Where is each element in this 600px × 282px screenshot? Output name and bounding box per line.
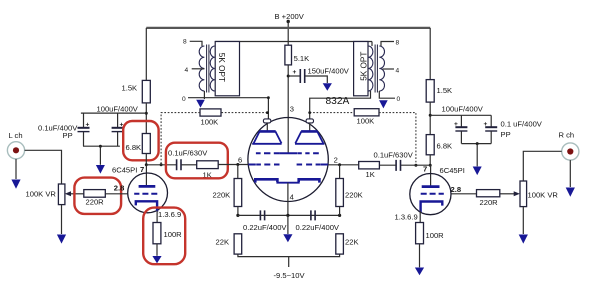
- wire bias coupling rail: [238, 214, 340, 216]
- ground arrow at 150uF: [323, 83, 332, 91]
- wire cathode to pin 4: [287, 183, 289, 216]
- wire tap 0 right: [379, 91, 395, 98]
- anode right unit 832A: [295, 131, 324, 143]
- grid right 6C45PI: [421, 193, 444, 195]
- red highlight box around 220R left: [74, 178, 121, 214]
- wire tap 0 / left plate run: [188, 98, 268, 119]
- svg-text:100K VR: 100K VR: [528, 191, 559, 200]
- cathode right 6C45PI: [421, 202, 443, 213]
- wire pin2 junction to 220K right: [339, 165, 341, 179]
- wire 1.5K left to PSU node: [145, 103, 147, 134]
- svg-text:7: 7: [423, 165, 427, 174]
- capacitor 0.22uF/400V left: [243, 210, 287, 232]
- svg-text:6.8K: 6.8K: [437, 142, 453, 151]
- wire left plate node: [146, 164, 176, 166]
- resistor 1.5K right: [426, 80, 452, 103]
- wire jack right to pot: [523, 151, 561, 181]
- wire OPT right primary bottom to right plate: [310, 91, 371, 119]
- input jack left: [7, 142, 24, 159]
- wire 6.8K to left plate node: [145, 154, 147, 165]
- tube 6C45PI left envelope: [128, 173, 168, 213]
- wire 1K to pin 6: [218, 164, 248, 166]
- wire cathode to 100R right: [419, 211, 421, 223]
- wire PSU right bottom: [461, 143, 491, 145]
- wire plate lead right into tube: [309, 123, 311, 131]
- svg-text:5K OPT: 5K OPT: [217, 53, 226, 82]
- svg-text:100K: 100K: [357, 117, 375, 126]
- wire cathode to 100R left: [156, 211, 158, 223]
- wire 220K right to bias rail: [339, 207, 341, 216]
- tube 6C45PI right envelope: [410, 174, 451, 215]
- input jack right: [562, 143, 579, 160]
- resistor 6.8K left: [126, 134, 151, 154]
- wire OPT right primary top corner: [371, 42, 373, 47]
- potentiometer 100K VR left: [26, 184, 65, 205]
- capacitor 0.1uF/630V right: [374, 151, 414, 171]
- resistor 22K right: [336, 234, 359, 254]
- svg-text:0: 0: [182, 96, 186, 103]
- svg-text:0.1 uF/400V: 0.1 uF/400V: [501, 119, 543, 128]
- resistor 100R left: [153, 223, 182, 244]
- ground arrow right PSU: [473, 144, 482, 176]
- svg-text:+: +: [293, 69, 297, 76]
- transformer OPT right body box: [354, 42, 369, 96]
- wire 6.8K to right plate node: [429, 155, 431, 165]
- svg-text:0.22uF/400V: 0.22uF/400V: [243, 223, 287, 232]
- tube 832A envelope: [248, 96, 350, 202]
- wire tap 8 left: [190, 41, 202, 46]
- plate cap feedthrough left: [263, 119, 270, 123]
- junction bias rail right: [338, 214, 341, 217]
- svg-text:2.8: 2.8: [451, 185, 462, 194]
- node B+200V label: [275, 12, 305, 23]
- resistor 5.1K: [285, 45, 309, 65]
- ground arrow under right jack: [566, 160, 575, 197]
- svg-text:832A: 832A: [326, 96, 350, 107]
- wire tap 4 right: [383, 68, 395, 70]
- svg-text:220K: 220K: [213, 191, 231, 200]
- resistor 220K left: [213, 179, 242, 207]
- anode left unit 832A: [252, 131, 281, 143]
- svg-text:100K: 100K: [201, 118, 219, 127]
- wire bias supply stub: [288, 257, 290, 267]
- transformer OPT left body box: [215, 42, 239, 96]
- svg-text:0: 0: [397, 96, 401, 103]
- svg-text:22K: 22K: [345, 238, 359, 247]
- red highlight box around 6.8K left: [123, 121, 158, 160]
- wire plate node down to left tube: [145, 165, 147, 187]
- wire jack left to pot: [25, 150, 62, 184]
- wire tap 4 left: [192, 68, 205, 70]
- junction right PSU node: [429, 114, 432, 117]
- svg-text:1.3.6.9: 1.3.6.9: [395, 213, 418, 222]
- resistor 220R left: [84, 190, 106, 207]
- svg-text:5.1K: 5.1K: [294, 54, 310, 63]
- wire pin6 junction to 220K left: [237, 165, 239, 179]
- ground arrow under OPT right 0 tap: [379, 100, 388, 108]
- svg-text:R ch: R ch: [559, 131, 575, 140]
- wire right rail drop to 1.5K: [429, 28, 431, 80]
- potentiometer 100K VR right: [520, 181, 558, 207]
- wire plate lead left into tube: [266, 123, 268, 131]
- transformer OPT right core: [375, 45, 377, 93]
- wire right pot to ground: [519, 207, 528, 244]
- svg-text:1.3.6.9: 1.3.6.9: [158, 210, 181, 219]
- ground arrow under 100R right: [415, 244, 424, 275]
- resistor 1K right: [359, 162, 380, 180]
- svg-text:4: 4: [396, 68, 400, 75]
- wire 220R to right tube grid: [451, 193, 477, 195]
- control grid left unit (pin 6): [248, 164, 279, 166]
- grid left 6C45PI: [134, 193, 157, 195]
- svg-text:100R: 100R: [164, 230, 183, 239]
- anode right 6C45PI: [422, 185, 440, 188]
- wire B+ vertical stem: [287, 22, 289, 46]
- dotted feedback wire right: [310, 113, 416, 166]
- junction left PSU node: [145, 112, 148, 115]
- svg-text:6C45PI: 6C45PI: [440, 166, 465, 175]
- svg-text:100K VR: 100K VR: [26, 190, 57, 199]
- ground arrow under left jack: [11, 159, 20, 189]
- red highlight box around 0.1uF+1K left: [166, 143, 228, 179]
- transformer OPT left primary winding: [210, 46, 215, 91]
- transformer OPT left core: [207, 45, 209, 93]
- wire B+ top rail: [146, 27, 430, 29]
- svg-text:6C45PI: 6C45PI: [112, 166, 137, 175]
- capacitor 0.22uF/400V right: [296, 210, 340, 232]
- svg-text:1.5K: 1.5K: [122, 84, 138, 93]
- wire PSU left top: [81, 112, 146, 114]
- resistor 1.5K left: [122, 80, 151, 103]
- ground arrow 832A cathode: [283, 215, 292, 242]
- wire 220R to left tube grid: [105, 193, 128, 195]
- svg-text:100uF/400V: 100uF/400V: [97, 105, 139, 114]
- svg-text:L ch: L ch: [9, 131, 23, 140]
- capacitor 100uF/400V left: [97, 105, 139, 147]
- wire B+ horizontal to both OPT primaries: [215, 41, 372, 43]
- svg-text:8: 8: [183, 39, 187, 46]
- transformer OPT right secondary winding: [379, 46, 384, 91]
- wire left pot to ground: [57, 205, 66, 244]
- svg-text:5K OPT: 5K OPT: [359, 52, 368, 81]
- svg-text:100uF/400V: 100uF/400V: [442, 105, 484, 114]
- control grid right unit (pin 2): [297, 164, 329, 166]
- svg-text:1.5K: 1.5K: [437, 86, 453, 95]
- cathode left 6C45PI: [136, 201, 157, 211]
- wire bias bottom rail: [238, 254, 340, 257]
- svg-text:0.22uF/400V: 0.22uF/400V: [296, 223, 340, 232]
- wire right plate node: [401, 164, 430, 166]
- wire left rail drop to 1.5K: [145, 28, 147, 81]
- svg-text:0.1uF/630V: 0.1uF/630V: [374, 151, 414, 160]
- wire PSU right top: [430, 114, 491, 116]
- svg-text:6: 6: [238, 155, 242, 164]
- capacitor 0.1uF/400V PP left: [38, 113, 90, 146]
- capacitor 0.1uF/400V pp right: [484, 115, 543, 143]
- svg-text:PP: PP: [501, 130, 511, 139]
- anode left 6C45PI: [139, 185, 156, 188]
- svg-text:100R: 100R: [426, 231, 445, 240]
- ground arrow under OPT left 0 tap: [196, 91, 205, 108]
- svg-text:2.8: 2.8: [114, 184, 125, 193]
- wire 1.5K right to PSU node: [429, 102, 431, 135]
- junction cathode at bias rail: [286, 214, 289, 217]
- wiper arrow left pot: [65, 191, 84, 196]
- svg-text:1K: 1K: [366, 170, 375, 179]
- resistor 100K feedback right: [354, 109, 379, 126]
- svg-text:2: 2: [334, 155, 338, 164]
- svg-text:4: 4: [185, 67, 189, 74]
- svg-text:4: 4: [290, 193, 294, 202]
- dotted feedback wire left: [161, 113, 267, 165]
- cathodes 832A: [255, 179, 319, 182]
- ground arrow under 100R left: [152, 244, 161, 264]
- wire 5.1K bottom to screen line: [287, 65, 289, 153]
- wire PSU left bottom: [83, 145, 120, 147]
- screen grids 832A (dashed rows joined to pin3 line): [256, 152, 319, 154]
- wire pin 2 to 1K right: [328, 164, 359, 166]
- transformer OPT right primary winding: [368, 46, 373, 91]
- svg-text:150uF/400V: 150uF/400V: [308, 67, 350, 76]
- svg-text:220K: 220K: [345, 191, 363, 200]
- svg-text:PP: PP: [63, 131, 73, 140]
- plate cap feedthrough right: [306, 119, 313, 123]
- svg-text:8: 8: [396, 39, 400, 46]
- svg-text:220R: 220R: [86, 197, 105, 206]
- capacitor 150uF/400V: [288, 67, 350, 84]
- svg-text:7: 7: [140, 165, 144, 174]
- svg-text:3: 3: [290, 105, 294, 114]
- resistor 6.8K right: [426, 135, 452, 155]
- svg-text:6.8K: 6.8K: [126, 143, 142, 152]
- wiper arrow right pot: [500, 191, 520, 196]
- transformer OPT left secondary winding: [199, 46, 204, 91]
- capacitor 100uF/400V right: [442, 105, 484, 144]
- svg-text:0.1uF/630V: 0.1uF/630V: [168, 148, 208, 157]
- wire 220K left to bias rail: [237, 207, 239, 216]
- wire tap 8 right: [381, 42, 394, 47]
- resistor 220K right: [336, 179, 363, 207]
- resistor 100R right: [416, 223, 445, 244]
- resistor 1K left: [197, 161, 219, 180]
- svg-text:220R: 220R: [480, 198, 499, 207]
- junction bias rail left: [236, 214, 239, 217]
- capacitor 0.1uF/630V left: [168, 148, 208, 170]
- red highlight box around 100R left: [143, 208, 185, 265]
- resistor 220R right: [477, 190, 500, 207]
- resistor 22K left: [216, 234, 242, 254]
- ground arrow left PSU: [96, 146, 105, 173]
- wire plate node down to right tube: [430, 165, 432, 186]
- svg-text:B +200V: B +200V: [275, 12, 305, 21]
- resistor 100K feedback left: [200, 109, 221, 127]
- svg-text:22K: 22K: [216, 238, 230, 247]
- svg-text:-9.5~10V: -9.5~10V: [274, 271, 306, 280]
